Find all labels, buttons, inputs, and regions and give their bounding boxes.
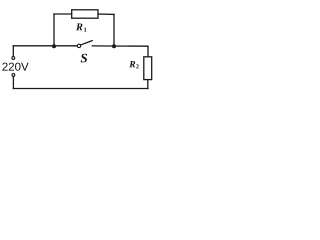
switch S blade: [81, 41, 92, 45]
label 220V: [2, 63, 28, 71]
wire: bottom wire: [13, 88, 148, 90]
wire: left side vertical lower: [12, 77, 14, 89]
wire: main top wire right segment: [92, 45, 148, 47]
label R1: [76, 23, 83, 30]
terminal lower circle: [12, 74, 15, 77]
switch S pivot circle: [77, 44, 80, 47]
node: junction dot right: [112, 44, 116, 48]
wire: right side vertical lower: [147, 80, 149, 89]
resistor R1 box: [72, 10, 98, 18]
terminal upper circle: [12, 57, 15, 60]
node: junction dot left: [52, 44, 56, 48]
wire: R1 branch left vertical: [53, 14, 55, 46]
wire: right side vertical upper: [147, 46, 149, 57]
wire: R1 branch top-left stub: [54, 13, 72, 15]
label S: [81, 54, 87, 63]
resistor R2 box: [144, 57, 152, 80]
wire: R1 branch top-right stub: [98, 13, 114, 15]
wire: R1 branch right vertical: [113, 14, 115, 46]
wire: main top wire left segment: [13, 45, 76, 47]
wire: left side vertical to upper terminal: [12, 46, 14, 56]
label R2: [129, 61, 135, 67]
